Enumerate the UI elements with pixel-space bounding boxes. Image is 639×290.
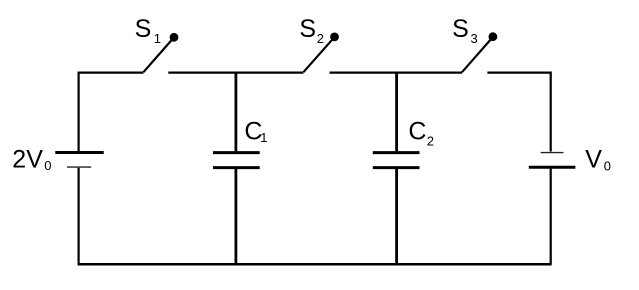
switch S2 contact dot — [330, 33, 339, 42]
switch S2 blade — [303, 38, 333, 72]
svg-text:0: 0 — [44, 158, 51, 173]
wire top segment D and right vertical upper — [487, 73, 550, 152]
switch S1 blade — [143, 39, 173, 73]
capacitor C1 top plate — [213, 151, 260, 154]
switch S1 contact dot — [170, 33, 179, 42]
svg-text:2: 2 — [427, 134, 434, 149]
svg-text:0: 0 — [604, 158, 611, 173]
capacitor C1 bottom stem — [234, 169, 237, 264]
wire top segment C (S2 to S3, C2 junction) — [330, 71, 463, 73]
svg-text:V: V — [585, 146, 602, 174]
capacitor C1 bottom plate — [213, 166, 260, 169]
battery B2 thick plate (V0 positive) — [529, 166, 576, 169]
svg-text:2V: 2V — [12, 145, 43, 173]
battery B1 thin plate (2V0 negative) — [67, 166, 91, 168]
svg-text:2: 2 — [317, 31, 324, 46]
svg-text:3: 3 — [471, 31, 478, 46]
capacitor C2 bottom stem — [395, 169, 398, 264]
svg-text:S: S — [452, 15, 469, 43]
capacitor C2 bottom plate — [373, 166, 420, 169]
right vertical lower wire — [550, 168, 552, 264]
svg-text:S: S — [299, 15, 316, 43]
capacitor C2 top plate — [373, 151, 420, 154]
svg-text:C: C — [408, 117, 426, 145]
svg-text:1: 1 — [260, 130, 267, 145]
bottom wire — [78, 263, 552, 266]
battery B2 thin plate (V0 negative) — [541, 152, 564, 154]
capacitor C1 top stem — [234, 72, 237, 152]
left vertical lower wire — [77, 168, 79, 264]
wire top-left segment and left vertical upper — [79, 73, 144, 152]
svg-text:S: S — [135, 15, 152, 43]
switch S3 contact dot — [489, 32, 498, 41]
battery B1 thick plate (2V0 positive) — [55, 151, 103, 154]
svg-text:1: 1 — [154, 31, 161, 46]
wire top segment B (S1 to S2, C1 junction) — [168, 71, 303, 73]
capacitor C2 top stem — [395, 72, 398, 152]
switch S3 blade — [462, 38, 492, 72]
